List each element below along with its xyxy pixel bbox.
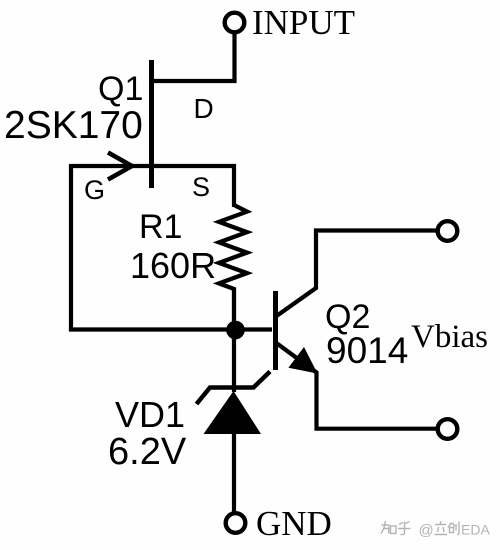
- svg-text:9014: 9014: [326, 330, 408, 371]
- svg-text:R1: R1: [139, 208, 182, 246]
- svg-text:EDA: EDA: [461, 522, 490, 538]
- svg-text:INPUT: INPUT: [252, 3, 355, 42]
- svg-text:GND: GND: [256, 504, 332, 543]
- svg-text:@: @: [419, 522, 434, 539]
- svg-text:S: S: [192, 172, 210, 202]
- svg-text:Vbias: Vbias: [411, 319, 488, 355]
- svg-text:D: D: [194, 93, 214, 124]
- svg-text:VD1: VD1: [115, 394, 185, 435]
- svg-text:G: G: [84, 175, 105, 205]
- svg-text:6.2V: 6.2V: [108, 431, 187, 473]
- svg-text:Q1: Q1: [98, 70, 143, 108]
- svg-text:2SK170: 2SK170: [4, 104, 143, 147]
- svg-text:160R: 160R: [130, 245, 216, 286]
